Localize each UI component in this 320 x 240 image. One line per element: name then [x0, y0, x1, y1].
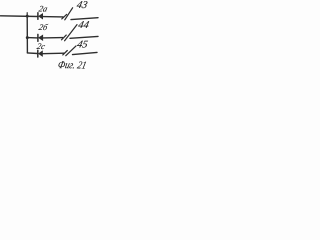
switch 44 blade [62, 35, 67, 40]
leader line 43 [65, 8, 73, 20]
leader line 44 [65, 25, 77, 41]
wire branch3 output [73, 52, 98, 54]
leader line 45 [66, 46, 76, 56]
wire branch1 to switch [43, 16, 63, 18]
wire branch2 input [27, 37, 38, 39]
wire branch1 input [1, 15, 38, 18]
svg-text:44: 44 [77, 20, 90, 31]
node junction dot branch1 [26, 15, 29, 18]
diode 2b triangle [39, 35, 43, 40]
wire branch2 output [70, 36, 98, 38]
diode 2b cathode bar [37, 34, 39, 41]
svg-text:45: 45 [76, 40, 89, 51]
diode 2a triangle [39, 14, 43, 19]
node junction dot branch2 [26, 36, 29, 39]
wire branch3 from bus corner [27, 52, 37, 55]
label 2a [38, 4, 49, 14]
svg-text:2a: 2a [38, 4, 49, 14]
label 43 [76, 0, 89, 11]
switch 43 blade [62, 14, 67, 19]
svg-text:2б: 2б [38, 22, 49, 32]
label 45 [76, 40, 89, 51]
wire branch1 output [71, 18, 98, 20]
wire branch3 to switch [43, 52, 65, 55]
diode 2a cathode bar [37, 13, 39, 19]
label 2b [38, 22, 49, 32]
svg-text:2c: 2c [36, 41, 46, 51]
label 2c [36, 41, 46, 51]
diode 2c cathode bar [37, 50, 39, 57]
wire bus vertical [26, 16, 28, 53]
diode 2c triangle [39, 51, 43, 56]
svg-text:43: 43 [76, 0, 89, 11]
switch 45 blade [63, 51, 68, 55]
wire branch2 to switch [43, 37, 63, 39]
figure caption [57, 59, 88, 71]
label 44 [77, 20, 90, 31]
svg-text:Фиг. 21: Фиг. 21 [57, 59, 88, 71]
node junction stub [26, 13, 28, 17]
